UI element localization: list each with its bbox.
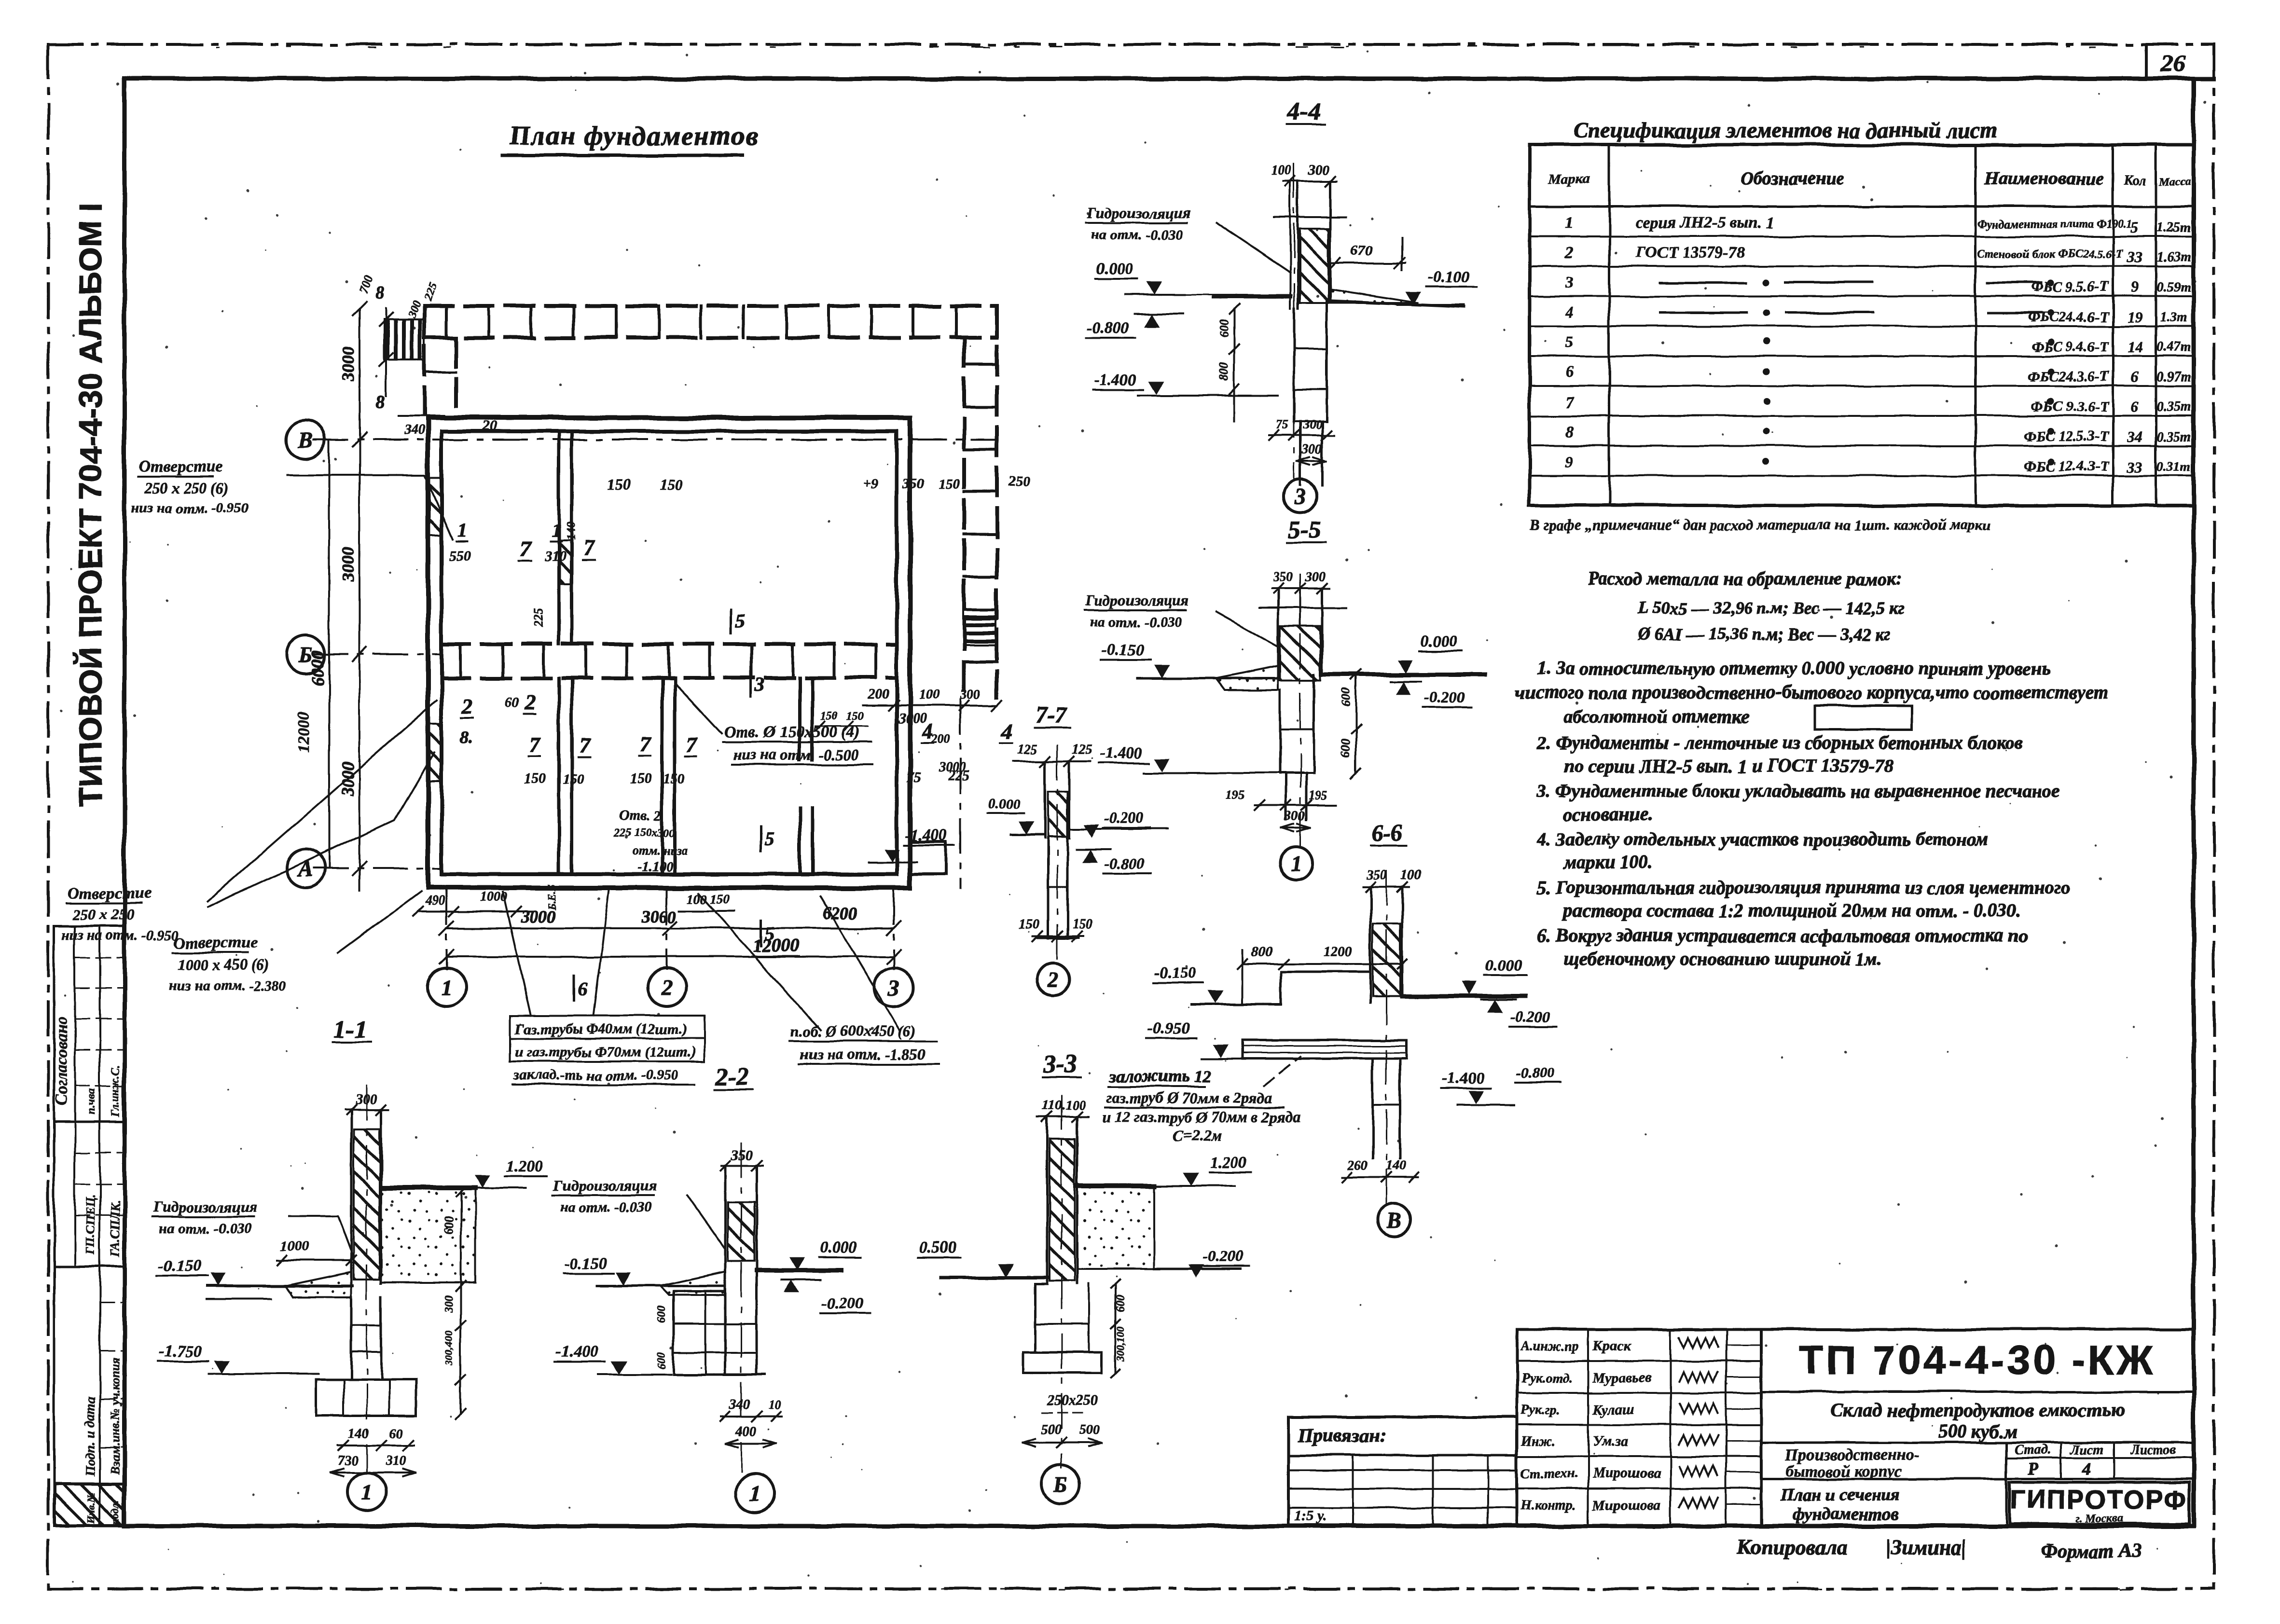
- svg-text:300,400: 300,400: [443, 1331, 455, 1366]
- svg-text:абсолютной отметке: абсолютной отметке: [1563, 706, 1749, 727]
- svg-text:0.500: 0.500: [919, 1239, 956, 1256]
- svg-text:2-2: 2-2: [715, 1063, 749, 1090]
- svg-text:В: В: [1386, 1208, 1402, 1232]
- svg-text:3: 3: [1295, 484, 1306, 509]
- svg-text:0.000: 0.000: [1421, 633, 1458, 650]
- svg-text:195: 195: [1226, 788, 1244, 802]
- svg-text:-0.150: -0.150: [158, 1257, 201, 1275]
- svg-text:-0.200: -0.200: [1424, 688, 1465, 706]
- svg-text:-0.200: -0.200: [821, 1294, 864, 1312]
- svg-text:Ø 6АI — 15,36 п.м; Вес — 3,: Ø 6АI — 15,36 п.м; Вес — 3,42 кг: [1638, 624, 1891, 644]
- stairs grille right: [963, 609, 996, 646]
- section 3-3 wall stem: [1046, 1117, 1049, 1284]
- svg-text:340: 340: [729, 1397, 750, 1412]
- svg-text:Б.Е.Б: Б.Е.Б: [546, 884, 558, 910]
- section 2-2 foundation blocks: [672, 1291, 675, 1375]
- svg-text:Ст.техн.: Ст.техн.: [1521, 1466, 1578, 1481]
- svg-text:0.35т: 0.35т: [2157, 399, 2191, 414]
- svg-text:раствора состава 1:2 толщино: раствора состава 1:2 толщиной 20мм на от…: [1562, 900, 2020, 921]
- svg-text:0.97т: 0.97т: [2157, 370, 2191, 385]
- svg-text:щебеночному основанию ширино: щебеночному основанию шириной 1м.: [1563, 949, 1882, 969]
- svg-text:10: 10: [768, 1398, 781, 1412]
- svg-text:310: 310: [386, 1453, 406, 1468]
- svg-text:350: 350: [1366, 867, 1387, 882]
- svg-text:ТП 704-4-30 -КЖ: ТП 704-4-30 -КЖ: [1799, 1337, 2156, 1383]
- svg-text:33: 33: [2127, 458, 2142, 475]
- svg-text:6-6: 6-6: [1371, 820, 1402, 846]
- svg-text:125: 125: [1017, 742, 1037, 757]
- svg-text:Подп. и дата: Подп. и дата: [83, 1397, 98, 1477]
- svg-text:3060: 3060: [641, 907, 677, 926]
- svg-text:400: 400: [735, 1424, 756, 1439]
- svg-text:1.63т: 1.63т: [2157, 250, 2191, 265]
- svg-text:-1.100: -1.100: [638, 860, 673, 875]
- svg-text:6: 6: [2131, 398, 2139, 415]
- svg-text:1000 х 450 (6): 1000 х 450 (6): [178, 956, 269, 973]
- svg-text:0.35т: 0.35т: [2157, 429, 2191, 444]
- svg-text:8: 8: [1565, 423, 1574, 441]
- section 7-7 foundation blocks: [1047, 838, 1050, 938]
- svg-text:250 х 250: 250 х 250: [72, 906, 134, 923]
- svg-text:Отверстие: Отверстие: [67, 884, 151, 902]
- svg-text:8.: 8.: [459, 728, 472, 747]
- axis lines: [314, 439, 997, 440]
- svg-text:Взам.инв.№ уч.копия: Взам.инв.№ уч.копия: [108, 1358, 122, 1474]
- svg-text:фундаментов: фундаментов: [1793, 1504, 1898, 1524]
- svg-text:150: 150: [563, 771, 584, 787]
- svg-text:3: 3: [754, 674, 764, 695]
- leader: gas pipes boxed note: [511, 1016, 705, 1038]
- svg-text:100: 100: [919, 687, 940, 702]
- svg-text:Марка: Марка: [1548, 171, 1590, 187]
- axis circle 3: [874, 968, 913, 1006]
- interior wall axis 2 bottom: [661, 678, 664, 874]
- section 2-2 axis circle: [736, 1474, 774, 1513]
- svg-text:6200: 6200: [823, 904, 857, 923]
- svg-text:L 50х5 — 32,96 п.м; Вес — 14: L 50х5 — 32,96 п.м; Вес — 142,5 кг: [1638, 598, 1904, 618]
- svg-text:чистого пола производственно: чистого пола производственно-бытового ко…: [1515, 682, 2108, 703]
- svg-text:ФБС 9.4.6-Т: ФБС 9.4.6-Т: [2031, 339, 2110, 355]
- svg-text:6: 6: [2131, 368, 2139, 385]
- section 7-7 axis circle: [1037, 963, 1070, 996]
- svg-text:0.47т: 0.47т: [2157, 340, 2191, 355]
- svg-text:1. За относительную отметку: 1. За относительную отметку 0.000 условн…: [1537, 658, 2050, 679]
- svg-text:|Зимина|: |Зимина|: [1886, 1536, 1966, 1559]
- svg-text:600: 600: [442, 1216, 456, 1235]
- svg-text:5: 5: [735, 610, 745, 632]
- svg-text:низ на отм. -1.850: низ на отм. -1.850: [800, 1046, 925, 1063]
- svg-text:заклад.-ть на отм. -0.950: заклад.-ть на отм. -0.950: [513, 1067, 678, 1083]
- bottom dimension chain: [446, 927, 894, 929]
- svg-text:Склад нефтепродуктов емкостью: Склад нефтепродуктов емкостью: [1830, 1399, 2125, 1421]
- svg-text:340: 340: [404, 423, 425, 438]
- svg-text:марки 100.: марки 100.: [1562, 852, 1653, 873]
- svg-text:225 150х300: 225 150х300: [613, 827, 675, 840]
- section 7-7 wall stem: [1044, 761, 1047, 838]
- svg-text:1000: 1000: [281, 1238, 310, 1254]
- svg-text:Листов: Листов: [2129, 1443, 2176, 1458]
- svg-text:ТИПОВОЙ ПРОЕКТ 704-4-30 АЛЬ: ТИПОВОЙ ПРОЕКТ 704-4-30 АЛЬБОМ I: [72, 203, 108, 807]
- svg-text:-0.800: -0.800: [1087, 319, 1129, 337]
- section 3-3 foundation blocks: [1034, 1284, 1036, 1352]
- spec table grid: [1530, 145, 2194, 506]
- svg-text:200: 200: [868, 687, 889, 702]
- svg-text:8: 8: [375, 392, 385, 412]
- svg-text:8: 8: [375, 283, 385, 303]
- svg-text:-0.150: -0.150: [1154, 964, 1196, 982]
- svg-text:Краск: Краск: [1592, 1338, 1631, 1354]
- svg-text:Лист: Лист: [2070, 1443, 2104, 1458]
- svg-text:490: 490: [424, 894, 445, 908]
- svg-text:Обозначение: Обозначение: [1741, 168, 1844, 189]
- svg-text:-0.100: -0.100: [1427, 268, 1470, 286]
- scan speckle noise: [1336, 344, 1339, 347]
- svg-text:5. Горизонтальная гидроизоляц: 5. Горизонтальная гидроизоляция принята …: [1537, 877, 2070, 898]
- interior wall axis1 top (room divider): [557, 431, 561, 644]
- svg-text:Рук.отд.: Рук.отд.: [1520, 1371, 1573, 1386]
- svg-text:5: 5: [765, 828, 774, 850]
- section 1-1 foundation blocks: [350, 1297, 353, 1380]
- svg-text:4: 4: [1001, 719, 1012, 743]
- svg-text:Формат А3: Формат А3: [2041, 1540, 2141, 1562]
- svg-text:1: 1: [1291, 852, 1302, 876]
- svg-text:60: 60: [389, 1426, 402, 1441]
- svg-text:низ на отм. -0.950: низ на отм. -0.950: [62, 927, 179, 943]
- svg-text:0.59т: 0.59т: [2157, 280, 2191, 295]
- svg-text:225: 225: [422, 282, 440, 303]
- svg-text:Наименование: Наименование: [1984, 168, 2104, 189]
- svg-text:Отв. 2: Отв. 2: [619, 808, 661, 824]
- section 5-5 axis circle: [1280, 847, 1313, 880]
- section 5-5 wall stem: [1277, 589, 1280, 678]
- svg-text:1:5 у.: 1:5 у.: [1295, 1508, 1327, 1524]
- svg-text:3000: 3000: [898, 710, 927, 726]
- svg-text:300: 300: [960, 687, 981, 702]
- svg-text:1.3т: 1.3т: [2160, 310, 2188, 325]
- svg-text:300: 300: [406, 299, 424, 320]
- svg-text:0.000: 0.000: [1485, 957, 1522, 975]
- svg-text:-0.150: -0.150: [565, 1255, 607, 1273]
- svg-text:110.100: 110.100: [1042, 1098, 1085, 1113]
- svg-text:-0.200: -0.200: [1510, 1008, 1550, 1025]
- svg-text:Б: Б: [1053, 1472, 1067, 1497]
- svg-text:100: 100: [1271, 163, 1292, 178]
- svg-text:350: 350: [902, 476, 924, 492]
- svg-text:-1.400: -1.400: [1442, 1070, 1484, 1087]
- svg-text:ФБС24.4.6-Т: ФБС24.4.6-Т: [2028, 309, 2110, 325]
- svg-text:350: 350: [1272, 570, 1293, 585]
- svg-text:300: 300: [1302, 417, 1322, 431]
- axis circle 2: [648, 968, 686, 1006]
- svg-text:1: 1: [457, 519, 467, 541]
- svg-text:Привязан:: Привязан:: [1298, 1424, 1386, 1446]
- section 1-1 ground line: [207, 1284, 352, 1287]
- inner drawing frame: [124, 77, 2214, 81]
- svg-text:300: 300: [1305, 570, 1326, 585]
- svg-text:ФБС 12.4.3-Т: ФБС 12.4.3-Т: [2024, 458, 2110, 474]
- svg-text:3000: 3000: [338, 547, 358, 582]
- svg-text:310: 310: [544, 548, 566, 564]
- svg-text:2. Фундаменты - ленточные из: 2. Фундаменты - ленточные из сборных бет…: [1536, 732, 2023, 753]
- svg-text:250: 250: [1008, 473, 1030, 489]
- svg-text:и 12 газ.труб Ø 70мм в 2ряда: и 12 газ.труб Ø 70мм в 2ряда: [1103, 1108, 1300, 1126]
- svg-text:5: 5: [1565, 333, 1574, 351]
- svg-text:150: 150: [1072, 917, 1092, 932]
- svg-text:Мирошова: Мирошова: [1592, 1465, 1661, 1481]
- svg-text:19: 19: [2127, 308, 2142, 326]
- svg-text:150: 150: [630, 771, 651, 787]
- svg-text:Р: Р: [2027, 1459, 2039, 1478]
- left dimension chain: [359, 309, 360, 890]
- wall hatch patches: [429, 478, 442, 536]
- svg-text:-1.400: -1.400: [1100, 744, 1142, 762]
- svg-text:150: 150: [847, 710, 864, 723]
- svg-text:6: 6: [1565, 363, 1574, 381]
- svg-text:и газ.трубы Ф70мм (12шт.): и газ.трубы Ф70мм (12шт.): [515, 1044, 696, 1060]
- svg-text:газ.труб Ø 70мм в 2ряда: газ.труб Ø 70мм в 2ряда: [1106, 1089, 1272, 1106]
- svg-text:0.000: 0.000: [820, 1239, 857, 1256]
- svg-text:ФБС 9.5.6-Т: ФБС 9.5.6-Т: [2031, 279, 2110, 295]
- svg-text:-0.950: -0.950: [1147, 1019, 1190, 1037]
- svg-text:0.000: 0.000: [1096, 260, 1133, 278]
- svg-text:Муравьев: Муравьев: [1592, 1370, 1652, 1386]
- svg-text:Рук.гр.: Рук.гр.: [1520, 1403, 1561, 1418]
- svg-text:низ на отм. -2.380: низ на отм. -2.380: [169, 977, 286, 993]
- svg-text:по серии ЛН2-5 вып. 1 и: по серии ЛН2-5 вып. 1 и ГОСТ 13579-78: [1563, 756, 1893, 776]
- svg-text:7: 7: [520, 536, 532, 561]
- section 4-4 ground right: [1330, 301, 1465, 307]
- svg-text:на отм. -0.030: на отм. -0.030: [560, 1199, 652, 1215]
- svg-text:14: 14: [2127, 338, 2142, 356]
- svg-text:ГП.СПЕЦ.: ГП.СПЕЦ.: [83, 1195, 97, 1255]
- axis circle Б: [286, 635, 325, 674]
- svg-text:отм. низа: отм. низа: [632, 844, 688, 858]
- svg-text:Н.контр.: Н.контр.: [1520, 1498, 1576, 1513]
- svg-text:на отм. -0.030: на отм. -0.030: [1092, 227, 1184, 243]
- svg-text:7: 7: [686, 733, 698, 757]
- section 4-4 foundation blocks: [1293, 309, 1296, 421]
- svg-text:2: 2: [661, 975, 673, 1000]
- svg-text:300: 300: [1301, 442, 1322, 457]
- svg-text:4: 4: [1565, 303, 1574, 321]
- svg-text:основание.: основание.: [1563, 804, 1653, 825]
- svg-text:-1.400: -1.400: [1094, 371, 1136, 389]
- section 5-5 foundation blocks: [1279, 690, 1282, 773]
- svg-text:250 х 250 (6): 250 х 250 (6): [144, 479, 228, 496]
- svg-text:ГОСТ 13579-78: ГОСТ 13579-78: [1635, 244, 1745, 261]
- svg-text:-0.150: -0.150: [1102, 641, 1144, 659]
- section 4-4 axis circle: [1284, 480, 1317, 512]
- axis circle B: [286, 420, 325, 459]
- title block main: [1761, 1328, 2194, 1331]
- svg-text:1: 1: [361, 1480, 373, 1504]
- svg-text:150: 150: [524, 771, 546, 787]
- perimeter footing dashed band (left stub): [423, 306, 427, 418]
- svg-text:Стеновой блок ФБС24.5.6-Т: Стеновой блок ФБС24.5.6-Т: [1977, 248, 2123, 261]
- building outer walls (double line): [428, 418, 910, 888]
- svg-text:2: 2: [461, 694, 472, 718]
- svg-text:серия ЛН2-5 вып. 1: серия ЛН2-5 вып. 1: [1636, 214, 1774, 232]
- svg-text:140: 140: [564, 522, 578, 540]
- svg-text:ФБС 9.3.6-Т: ФБС 9.3.6-Т: [2031, 399, 2110, 414]
- svg-text:Кол: Кол: [2123, 174, 2146, 189]
- svg-text:60: 60: [505, 694, 519, 710]
- svg-text:г. Москва: г. Москва: [2075, 1512, 2123, 1525]
- svg-text:1.200: 1.200: [1210, 1154, 1247, 1171]
- interior wall bottom left divider: [557, 678, 561, 874]
- axis circle 1: [427, 968, 466, 1006]
- svg-text:В: В: [298, 427, 313, 452]
- section 6-6 axis circle: [1378, 1203, 1410, 1236]
- svg-text:Масса: Масса: [2158, 176, 2191, 188]
- svg-text:20: 20: [482, 418, 497, 434]
- svg-text:Гидроизоляция: Гидроизоляция: [553, 1177, 657, 1194]
- svg-text:200: 200: [931, 732, 950, 746]
- svg-text:0.31т: 0.31т: [2157, 459, 2191, 474]
- svg-text:на отм. -0.030: на отм. -0.030: [1090, 614, 1182, 630]
- svg-text:4-4: 4-4: [1287, 98, 1321, 125]
- svg-text:Мирошова: Мирошова: [1592, 1497, 1661, 1513]
- svg-text:5-5: 5-5: [1287, 516, 1321, 544]
- svg-text:заложить 12: заложить 12: [1109, 1066, 1211, 1086]
- svg-text:800: 800: [1251, 944, 1272, 960]
- svg-text:А.инж.пр: А.инж.пр: [1520, 1339, 1579, 1354]
- svg-text:12000: 12000: [753, 936, 799, 956]
- svg-text:Газ.трубы Ф40мм (12шт.): Газ.трубы Ф40мм (12шт.): [515, 1021, 687, 1037]
- section 1-1 vert dims right: [460, 1192, 462, 1414]
- svg-text:ГИПРОТОРФ: ГИПРОТОРФ: [2010, 1485, 2188, 1514]
- svg-text:Кулаш: Кулаш: [1592, 1402, 1634, 1418]
- svg-text:Гидроизоляция: Гидроизоляция: [1085, 592, 1189, 609]
- svg-text:Гл.инж.С.: Гл.инж.С.: [110, 1064, 122, 1117]
- svg-text:600: 600: [1339, 740, 1353, 758]
- svg-text:150: 150: [1019, 917, 1039, 932]
- interior wall bottom right divider with opening: [798, 678, 801, 760]
- svg-text:+9: +9: [864, 477, 878, 492]
- svg-text:4: 4: [2082, 1459, 2091, 1478]
- svg-text:600: 600: [655, 1306, 668, 1323]
- svg-text:Расход металла на обрамление: Расход металла на обрамление рамок:: [1587, 569, 1902, 589]
- svg-text:Ум.за: Ум.за: [1592, 1433, 1628, 1449]
- svg-text:Отверстие: Отверстие: [139, 458, 222, 476]
- svg-text:75: 75: [906, 770, 921, 786]
- svg-text:26: 26: [2160, 50, 2185, 77]
- svg-text:1: 1: [1565, 214, 1574, 232]
- svg-text:9: 9: [1565, 453, 1574, 471]
- svg-text:1200: 1200: [1323, 944, 1352, 960]
- svg-text:500 куб.м: 500 куб.м: [1937, 1420, 2017, 1442]
- svg-text:1-1: 1-1: [334, 1016, 367, 1043]
- svg-text:1.25т: 1.25т: [2157, 220, 2191, 235]
- section 6-6 lower stem: [1372, 1059, 1374, 1158]
- svg-text:План и сечения: План и сечения: [1780, 1485, 1900, 1504]
- svg-text:5: 5: [2131, 219, 2139, 236]
- section 5-5 vert dims right: [1355, 674, 1357, 773]
- outer dash-dot sheet border: [48, 43, 2214, 46]
- svg-text:на отм. -0.030: на отм. -0.030: [159, 1221, 251, 1237]
- svg-text:7-7: 7-7: [1036, 702, 1067, 728]
- section 1-1 axis circle: [347, 1473, 386, 1511]
- svg-text:3: 3: [1565, 274, 1574, 291]
- svg-text:п.чва: п.чва: [85, 1088, 97, 1115]
- svg-text:600: 600: [655, 1352, 668, 1369]
- svg-text:7: 7: [1565, 393, 1575, 411]
- svg-text:-0.800: -0.800: [1104, 854, 1144, 872]
- svg-text:бытовой корпус: бытовой корпус: [1785, 1462, 1902, 1480]
- svg-text:500: 500: [1080, 1422, 1100, 1437]
- svg-text:3. Фундаментные блоки уклады: 3. Фундаментные блоки укладывать на выра…: [1536, 781, 2060, 801]
- section 6-6 step ground left: [1192, 972, 1369, 1005]
- interior middle dashed band along axis Б: [442, 642, 897, 646]
- svg-text:Инж.: Инж.: [1520, 1434, 1555, 1449]
- svg-text:-1.400: -1.400: [556, 1343, 598, 1361]
- svg-text:-0.200: -0.200: [1202, 1247, 1243, 1265]
- note 1 empty box: [1815, 705, 1912, 729]
- svg-text:План фундаментов: План фундаментов: [509, 121, 759, 151]
- svg-text:Отверстие: Отверстие: [174, 934, 257, 952]
- svg-text:-1.750: -1.750: [159, 1343, 202, 1361]
- svg-text:550: 550: [449, 548, 470, 564]
- svg-text:5: 5: [765, 922, 774, 944]
- svg-text:34: 34: [2127, 428, 2142, 445]
- svg-text:7: 7: [579, 733, 591, 757]
- svg-text:150: 150: [663, 771, 685, 787]
- svg-text:500: 500: [1041, 1422, 1062, 1437]
- section 4-4 wall stem: [1289, 181, 1291, 309]
- svg-text:150: 150: [660, 476, 683, 493]
- svg-text:670: 670: [1351, 242, 1373, 258]
- svg-text:подл.: подл.: [110, 1500, 122, 1525]
- title block privyazan table: [1288, 1417, 1517, 1526]
- svg-text:низ на отм. -0.500: низ на отм. -0.500: [733, 746, 858, 763]
- svg-text:Фундаментная плита Ф190.1: Фундаментная плита Ф190.1: [1977, 218, 2132, 231]
- svg-text:3000: 3000: [938, 760, 966, 775]
- svg-text:Гидроизоляция: Гидроизоляция: [1086, 204, 1190, 221]
- svg-text:1: 1: [750, 1481, 761, 1506]
- svg-text:300: 300: [443, 1295, 456, 1313]
- svg-text:6. Вокруг здания устраиваетс: 6. Вокруг здания устраивается асфальтова…: [1537, 925, 2028, 946]
- page number box 26: [2145, 44, 2148, 79]
- svg-text:800: 800: [1217, 362, 1231, 381]
- svg-text:3-3: 3-3: [1043, 1050, 1077, 1078]
- section 6-6 sleeve pipes bar: [1242, 1040, 1407, 1059]
- svg-text:3: 3: [888, 975, 899, 1000]
- svg-text:Копировала: Копировала: [1737, 1536, 1848, 1559]
- svg-text:1.200: 1.200: [506, 1157, 543, 1175]
- svg-text:ГА.СПЛК.: ГА.СПЛК.: [108, 1200, 122, 1257]
- svg-text:6000: 6000: [308, 650, 327, 685]
- svg-text:Производственно-: Производственно-: [1785, 1446, 1920, 1464]
- svg-text:6: 6: [578, 977, 588, 999]
- svg-text:700: 700: [356, 273, 376, 295]
- svg-text:600: 600: [1339, 688, 1353, 707]
- title block signature table: [1517, 1329, 1761, 1526]
- stairs grille top-left: [384, 319, 425, 360]
- svg-text:12000: 12000: [295, 712, 313, 753]
- svg-text:730: 730: [338, 1453, 358, 1468]
- svg-text:75: 75: [1276, 417, 1289, 431]
- svg-text:2: 2: [1048, 967, 1059, 992]
- svg-text:150: 150: [938, 476, 960, 492]
- perimeter footing dashed band (top): [425, 304, 997, 308]
- svg-text:100: 100: [1400, 867, 1421, 882]
- svg-text:150: 150: [607, 476, 630, 493]
- svg-text:В графе „примечание“ дан расхо: В графе „примечание“ дан расход материал…: [1529, 516, 1990, 533]
- axis circle А: [286, 849, 325, 888]
- svg-text:Стад.: Стад.: [2015, 1443, 2051, 1458]
- svg-text:260: 260: [1347, 1158, 1368, 1173]
- svg-text:1: 1: [441, 975, 452, 1000]
